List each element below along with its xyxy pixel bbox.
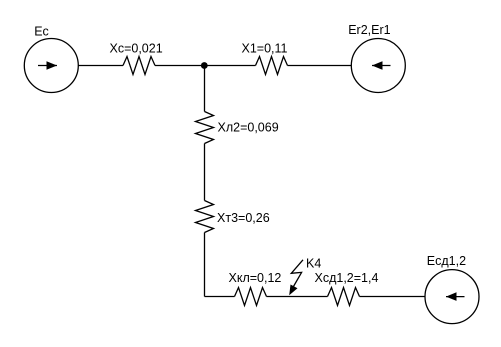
- svg-text:Xсд1,2=1,4: Xсд1,2=1,4: [315, 271, 379, 285]
- svg-text:Ec: Ec: [34, 25, 49, 39]
- svg-text:Eсд1,2: Eсд1,2: [427, 254, 466, 268]
- svg-text:Xкл=0,12: Xкл=0,12: [229, 271, 282, 285]
- svg-text:X1=0,11: X1=0,11: [242, 42, 288, 56]
- svg-text:K4: K4: [306, 257, 321, 271]
- svg-text:Xт3=0,26: Xт3=0,26: [217, 211, 270, 225]
- svg-text:Xл2=0,069: Xл2=0,069: [218, 121, 279, 135]
- svg-text:Xc=0,021: Xc=0,021: [110, 42, 163, 56]
- svg-text:Er2,Er1: Er2,Er1: [348, 23, 390, 37]
